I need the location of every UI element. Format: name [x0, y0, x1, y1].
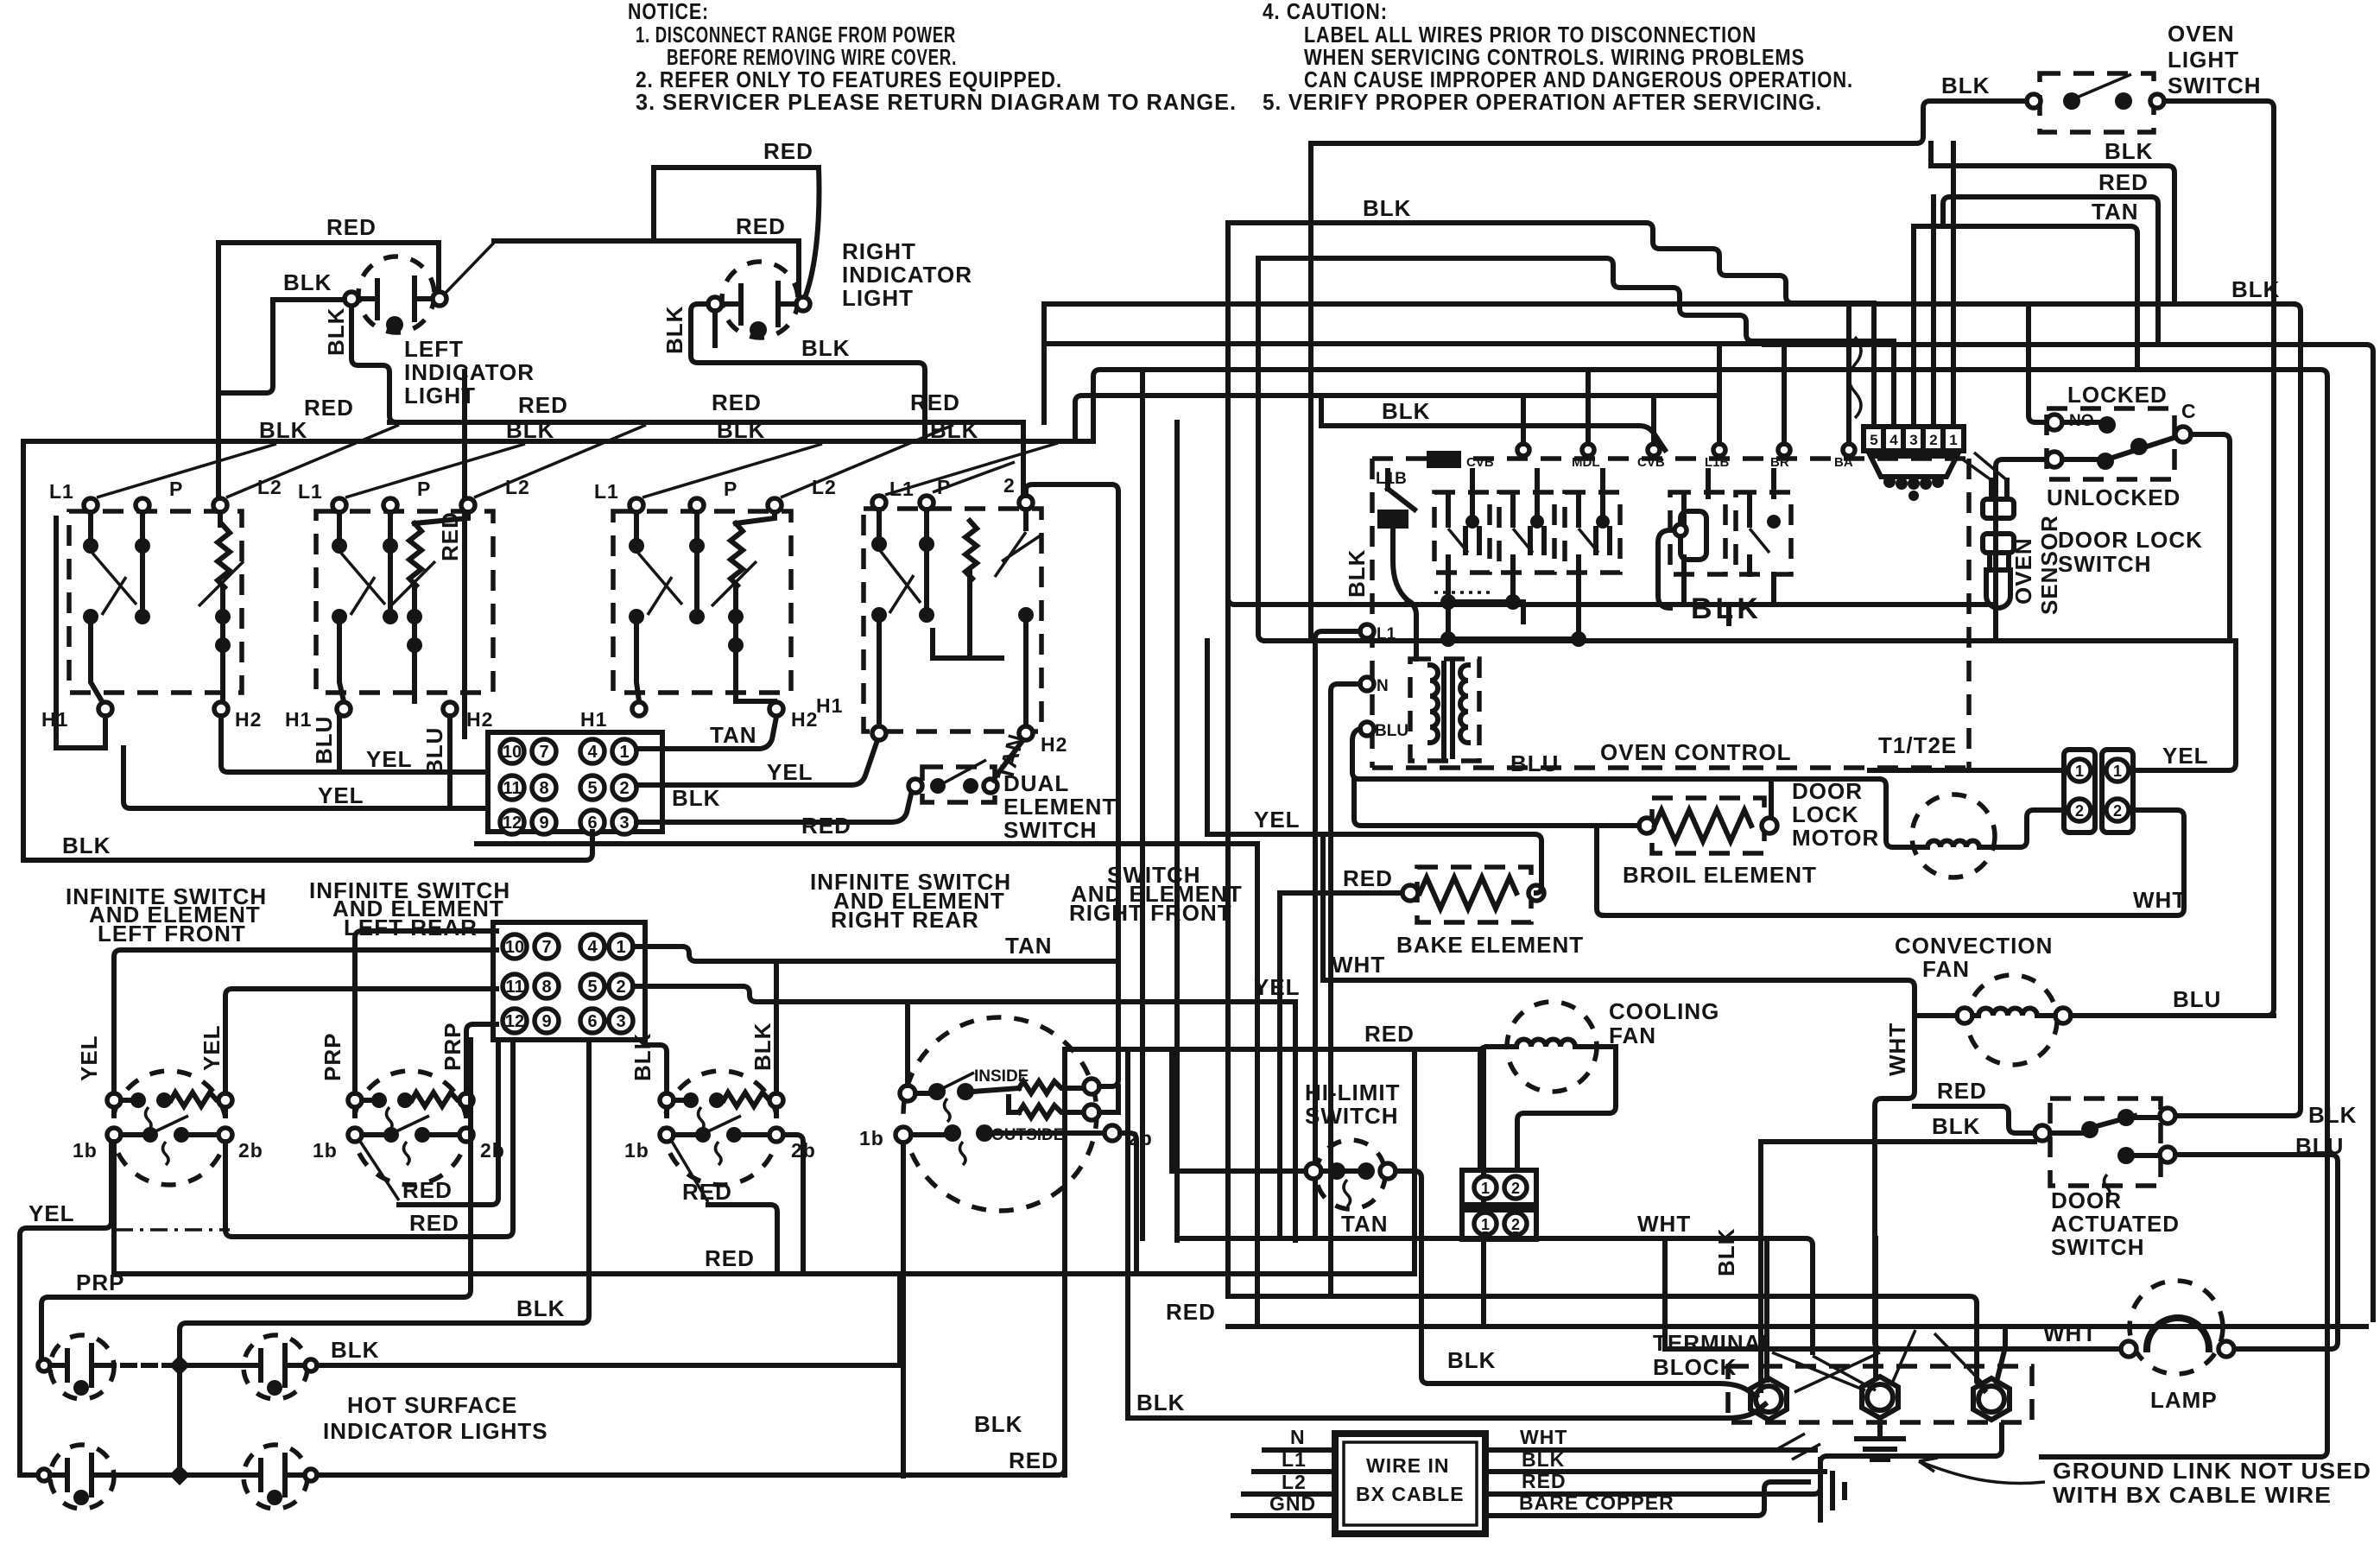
switch and element right front: [859, 1017, 1153, 1211]
wire RED tall loop top center: [654, 168, 819, 295]
svg-text:10: 10: [503, 743, 522, 762]
svg-text:L1B: L1B: [1705, 455, 1730, 470]
svg-text:WIRE IN: WIRE IN: [1366, 1454, 1449, 1477]
svg-text:BLK: BLK: [259, 417, 307, 443]
label LEFT INDICATOR LIGHT: [404, 336, 535, 408]
svg-text:RED: RED: [763, 138, 813, 164]
wire LF to block2 row1: [114, 950, 497, 1093]
connector block 1: [488, 732, 662, 834]
bx stub L1: [1254, 1469, 1335, 1474]
svg-text:RED: RED: [736, 213, 786, 239]
crossover diagonals box2: [345, 425, 646, 497]
wire BLU bus: [1359, 779, 1919, 847]
svg-text:YEL: YEL: [28, 1200, 75, 1226]
svg-text:BLK: BLK: [1363, 195, 1411, 221]
wire left pin2 down: [1331, 684, 1360, 1296]
wire upper cross line y428: [1093, 370, 1768, 441]
svg-text:RED: RED: [1009, 1447, 1059, 1473]
svg-text:YEL: YEL: [767, 759, 813, 785]
svg-text:PRP: PRP: [440, 1023, 465, 1071]
svg-text:RED: RED: [1166, 1299, 1216, 1325]
wire RR 1b drop: [708, 1205, 777, 1274]
svg-text:PRP: PRP: [76, 1270, 124, 1295]
svg-text:2: 2: [1511, 1216, 1520, 1233]
bx wire BLK: [1485, 1469, 1825, 1474]
svg-text:RED: RED: [712, 389, 762, 415]
surface switch box 2 left rear: [285, 476, 530, 731]
svg-text:BLK: BLK: [1713, 1228, 1739, 1276]
wire upper cross line y458: [1075, 396, 1719, 441]
wire BLK from right indicator left terminal: [691, 304, 925, 441]
connector pair boxes: [2064, 750, 2133, 833]
svg-text:BLK: BLK: [1344, 549, 1370, 598]
wire TAN nest line: [1914, 226, 2137, 370]
svg-text:2: 2: [616, 978, 625, 997]
svg-text:CVB: CVB: [1637, 455, 1665, 470]
svg-text:BLK: BLK: [323, 307, 349, 356]
svg-text:2b: 2b: [480, 1139, 505, 1162]
svg-text:RED: RED: [801, 813, 851, 839]
svg-text:5: 5: [1870, 432, 1877, 448]
svg-text:8: 8: [541, 978, 551, 997]
hot surface light 4: [190, 1445, 317, 1509]
svg-text:1: 1: [616, 938, 625, 957]
wire BLK bus y352: [1044, 301, 2294, 307]
wire BLU conv fan: [2071, 1013, 2274, 1018]
wire YEL row to pins 10/11: [221, 716, 488, 772]
svg-text:WHT: WHT: [2133, 887, 2187, 913]
svg-text:TAN: TAN: [2092, 199, 2139, 225]
wire WHT from pair down: [1604, 810, 2184, 915]
svg-text:DOOR: DOOR: [1792, 778, 1863, 804]
svg-text:1b: 1b: [624, 1139, 649, 1162]
5-pin connector plug: [1870, 456, 1957, 501]
svg-text:1b: 1b: [313, 1139, 338, 1162]
wire lug3 riser: [1997, 1327, 2005, 1382]
wire vertical red center: [462, 371, 467, 737]
svg-text:2: 2: [1511, 1180, 1520, 1197]
wire squiggle: [1849, 337, 1861, 418]
svg-text:MOTOR: MOTOR: [1792, 825, 1879, 851]
wire LF to block2 row2: [225, 989, 497, 1093]
oven sensor: [1960, 453, 2014, 608]
wire LR right to block2 row3: [466, 1024, 497, 1093]
svg-text:BROIL ELEMENT: BROIL ELEMENT: [1623, 862, 1817, 888]
svg-text:7: 7: [541, 938, 551, 957]
crossover diagonals box4: [885, 443, 1058, 495]
wire oven light switch right rail: [2164, 101, 2274, 1016]
svg-text:BLK: BLK: [1382, 398, 1430, 424]
svg-text:4: 4: [587, 743, 598, 762]
svg-text:YEL: YEL: [1254, 807, 1301, 833]
lamp: [2121, 1281, 2234, 1374]
wire BLK bottom bus: [23, 832, 592, 860]
svg-text:YEL: YEL: [1254, 974, 1301, 1000]
svg-text:BLK: BLK: [630, 1033, 655, 1081]
wire stubs box2 to bus: [1485, 1234, 1516, 1238]
svg-text:5. VERIFY PROPER OPERATION AFT: 5. VERIFY PROPER OPERATION AFTER SERVICI…: [1263, 89, 1822, 115]
wire right-half bus y700: [1235, 602, 1996, 607]
relay box C: [1565, 471, 1620, 573]
svg-text:DOOR: DOOR: [2051, 1187, 2122, 1213]
svg-text:YEL: YEL: [366, 746, 413, 772]
svg-text:H2: H2: [1041, 733, 1067, 756]
wire RED to door actuated switch: [1915, 1106, 2035, 1133]
svg-text:1: 1: [1481, 1216, 1490, 1233]
svg-text:RIGHT: RIGHT: [842, 238, 916, 264]
wire BLK from left indicator: [221, 300, 345, 393]
svg-text:BLK: BLK: [2105, 138, 2153, 164]
terminal lug 1: [1750, 1378, 1787, 1420]
bx ground symbol: [1820, 1460, 1845, 1520]
crossover diagonals box3: [642, 425, 953, 497]
svg-text:BLK: BLK: [506, 417, 554, 443]
svg-text:DOOR LOCK: DOOR LOCK: [2058, 527, 2203, 553]
crossover diagonals box1: [97, 425, 399, 497]
svg-text:YEL: YEL: [318, 782, 364, 808]
wire RED long bus right: [1228, 1324, 2366, 1329]
svg-text:WITH BX CABLE WIRE: WITH BX CABLE WIRE: [2053, 1482, 2332, 1508]
wire right-half bus y742: [1265, 638, 2236, 643]
svg-text:1b: 1b: [859, 1127, 884, 1149]
wire RR 2b drop: [783, 1135, 803, 1274]
wire from 1A down left: [1408, 600, 1416, 659]
wire BLK nest line: [1931, 143, 2174, 304]
wire YEL from pair: [2133, 641, 2236, 770]
wire PRP bus: [41, 1040, 471, 1365]
wire RED rail drop left: [1062, 1049, 1067, 1475]
svg-text:BLK: BLK: [717, 417, 765, 443]
junction node row2: [169, 1465, 190, 1485]
wire RR left to block2 bottom corner: [645, 1045, 667, 1093]
wire BLK row1: [317, 1274, 900, 1365]
svg-text:4. CAUTION:: 4. CAUTION:: [1263, 0, 1388, 24]
svg-text:SWITCH: SWITCH: [2168, 73, 2262, 98]
svg-text:AUX: AUX: [1430, 453, 1458, 467]
arrow to ground: [1919, 1458, 2045, 1484]
wire BLU drop to broil: [1769, 779, 1774, 826]
svg-text:3: 3: [619, 814, 629, 833]
svg-text:P: P: [417, 478, 431, 500]
bx stub L2: [1244, 1491, 1335, 1497]
svg-text:RED: RED: [1522, 1470, 1567, 1492]
svg-text:L1: L1: [298, 480, 323, 503]
oven control top pins: [1517, 304, 1855, 456]
wire BLK bus y428 extended: [1768, 370, 2327, 1457]
svg-text:5: 5: [587, 978, 597, 997]
svg-text:11: 11: [505, 978, 523, 997]
svg-text:H1: H1: [285, 708, 312, 731]
wire RF 1b drop: [901, 1143, 906, 1476]
svg-text:LEFT: LEFT: [404, 336, 464, 362]
svg-text:8: 8: [539, 779, 548, 798]
svg-text:5: 5: [587, 779, 597, 798]
5-pin connector: [1864, 427, 1964, 451]
svg-text:L1: L1: [1282, 1448, 1307, 1471]
hot surface light 1: [38, 1335, 114, 1399]
notice text block: [628, 0, 1237, 115]
svg-text:1: 1: [1481, 1180, 1490, 1197]
svg-text:HOT SURFACE: HOT SURFACE: [347, 1392, 517, 1418]
svg-text:RED: RED: [304, 395, 354, 421]
svg-text:CVB: CVB: [1466, 455, 1494, 470]
svg-text:1: 1: [2113, 763, 2122, 780]
label RIGHT INDICATOR LIGHT: [842, 238, 972, 311]
svg-text:YEL: YEL: [76, 1035, 102, 1081]
svg-text:LOCK: LOCK: [1792, 801, 1859, 827]
surface switch box 1 left front: [41, 476, 282, 731]
svg-text:ELEMENT: ELEMENT: [1003, 794, 1117, 820]
svg-text:SWITCH: SWITCH: [2058, 551, 2152, 577]
svg-text:1: 1: [619, 743, 629, 762]
svg-text:OVEN: OVEN: [2168, 21, 2235, 47]
svg-text:BLK: BLK: [1691, 592, 1762, 625]
hot surface light 2: [190, 1335, 317, 1399]
wire RED bus y489: [389, 420, 1023, 425]
svg-text:TERMINAL: TERMINAL: [1653, 1330, 1776, 1356]
relay box E: [1736, 471, 1791, 574]
wire cooling fan right leg: [1517, 1047, 1616, 1170]
svg-text:BLU: BLU: [2173, 986, 2221, 1012]
wire RR 1b diagonal: [671, 1140, 708, 1202]
svg-text:6: 6: [587, 1012, 597, 1031]
svg-text:TAN: TAN: [1005, 933, 1053, 959]
wire YEL bus mid: [1207, 834, 1541, 893]
svg-text:H2: H2: [235, 708, 262, 731]
svg-text:BLU: BLU: [2295, 1133, 2344, 1159]
svg-text:WHT: WHT: [1520, 1426, 1567, 1448]
wire RED rail drop right: [1481, 1049, 1486, 1327]
wire mid rail C: [1255, 844, 1260, 1327]
svg-text:LOCKED: LOCKED: [2067, 382, 2168, 408]
1A black box: [1377, 510, 1408, 529]
svg-text:C: C: [2181, 400, 2197, 422]
wire RED to bake: [1280, 890, 1410, 896]
wire BLK rail right to door switch: [2175, 304, 2301, 1116]
svg-text:7: 7: [539, 743, 548, 762]
svg-text:P: P: [724, 478, 737, 500]
relay box D: [1670, 471, 1725, 574]
infinite switch left front: [73, 1024, 263, 1185]
svg-text:ACTUATED: ACTUATED: [2051, 1211, 2180, 1237]
svg-text:LIGHT: LIGHT: [2168, 47, 2239, 73]
hi-limit switch: [1306, 1140, 1396, 1209]
svg-text:SWITCH: SWITCH: [2051, 1234, 2145, 1260]
infinite switch left rear: [313, 1023, 505, 1185]
wire hi-limit right lead down: [1396, 1171, 1428, 1384]
wire hi-limit left lead: [1172, 1168, 1306, 1174]
svg-text:UNLOCKED: UNLOCKED: [2047, 484, 2181, 510]
wire in bx cable box: [1335, 1434, 1485, 1534]
infinite switch right rear: [624, 1023, 816, 1185]
svg-text:SWITCH: SWITCH: [1305, 1103, 1399, 1129]
svg-text:RED: RED: [326, 214, 377, 240]
wire RED bus right mid: [1065, 1047, 1484, 1052]
svg-text:BLK: BLK: [283, 269, 332, 295]
svg-text:BLK: BLK: [1932, 1113, 1980, 1139]
wire upper cross line y398: [1044, 341, 1764, 346]
svg-text:BLK: BLK: [1447, 1347, 1496, 1373]
svg-text:WHT: WHT: [1884, 1023, 1910, 1076]
transformer: [1410, 659, 1479, 761]
wire BLU drop from box2 H1: [337, 716, 342, 772]
svg-text:10: 10: [505, 938, 524, 957]
svg-text:RED: RED: [705, 1245, 755, 1271]
svg-text:BR: BR: [1770, 455, 1789, 470]
svg-text:H1: H1: [816, 694, 843, 717]
svg-text:4: 4: [1889, 432, 1898, 448]
wire BLK bus y511: [23, 439, 1093, 444]
wire dashed link to junction: [102, 1363, 169, 1368]
svg-text:BLU: BLU: [1375, 722, 1408, 740]
svg-text:9: 9: [539, 814, 548, 833]
wire LF 1b down: [111, 1142, 117, 1274]
wire broil left lead: [1354, 779, 1639, 826]
svg-text:MDL: MDL: [1572, 455, 1600, 470]
wire TAN from dual element switch up to box4 H2: [993, 741, 1022, 780]
wire BLK short bus to lug1: [1428, 1384, 1757, 1396]
caution text block: [1263, 0, 1853, 115]
wire RED bus y399 extended: [1764, 345, 2373, 1320]
svg-text:YEL: YEL: [199, 1024, 225, 1071]
dotted link under relay A: [1434, 591, 1490, 594]
wire into pair pin1: [1870, 768, 2064, 773]
wire BLK from pin 3 to dual element switch: [636, 790, 912, 822]
svg-text:BLK: BLK: [672, 785, 720, 811]
svg-text:9: 9: [541, 1012, 551, 1031]
door actuated switch: [2035, 1099, 2175, 1198]
svg-text:L1B: L1B: [1376, 470, 1407, 488]
svg-text:1b: 1b: [73, 1139, 98, 1162]
wire TAN-WHT bus: [1177, 1238, 1813, 1352]
thin link lines near bx: [1776, 1434, 1820, 1460]
wire RED stub 1: [399, 1040, 498, 1205]
svg-text:BLK: BLK: [62, 833, 111, 858]
door lock motor: [1912, 795, 1995, 877]
wire cooling fan left leg: [1480, 1047, 1487, 1170]
svg-text:BLK: BLK: [750, 1023, 775, 1071]
svg-text:2: 2: [1003, 474, 1016, 497]
svg-text:BLU: BLU: [421, 727, 447, 776]
wire RR right up to TAN bus: [774, 961, 779, 1093]
left indicator light: [345, 256, 446, 333]
svg-text:NOTICE:: NOTICE:: [628, 0, 709, 24]
wire RF upper left up to YEL: [905, 1002, 910, 1086]
svg-text:12: 12: [503, 814, 522, 833]
svg-text:T1/T2E: T1/T2E: [1878, 732, 1957, 758]
svg-text:RED: RED: [682, 1179, 732, 1205]
wire staircase 1: [1228, 223, 1874, 303]
svg-text:GROUND LINK NOT USED: GROUND LINK NOT USED: [2053, 1458, 2371, 1484]
svg-text:BLK: BLK: [661, 306, 687, 354]
svg-text:2b: 2b: [1128, 1127, 1153, 1149]
wire BLK long bottom: [1128, 1404, 1765, 1418]
relay box A: [1434, 471, 1490, 573]
bx stub N: [1264, 1447, 1335, 1453]
wire mid rail B: [1225, 441, 1231, 1296]
pin code labels: [1427, 451, 1853, 470]
svg-text:YEL: YEL: [2162, 743, 2209, 769]
wire junction column: [177, 1365, 182, 1475]
hot surface light 3: [38, 1445, 114, 1509]
svg-text:LAMP: LAMP: [2150, 1387, 2218, 1413]
wire left pin3 to BLU: [1352, 729, 1360, 779]
wire lug2 riser: [1873, 1238, 1878, 1378]
svg-text:RIGHT FRONT: RIGHT FRONT: [1069, 900, 1232, 926]
svg-text:2b: 2b: [238, 1139, 263, 1162]
wire BLK bus into control: [1321, 426, 1665, 450]
bx wire RED: [1485, 1425, 2002, 1494]
svg-text:BLK: BLK: [1941, 73, 1990, 98]
wire BLK to door actuated switch: [1761, 1139, 2035, 1144]
svg-text:TAN: TAN: [1341, 1211, 1389, 1237]
thin cross wires above lugs: [1772, 1330, 1986, 1392]
wire bus y1501: [1228, 1296, 1984, 1390]
svg-text:LIGHT: LIGHT: [842, 285, 914, 311]
svg-text:BLOCK: BLOCK: [1653, 1354, 1737, 1380]
wire 5-pin connector risers: [1874, 143, 1953, 427]
connector block 2: [493, 922, 645, 1040]
terminal lug 3: [1973, 1378, 2010, 1420]
wire left margin rail: [21, 441, 26, 860]
wire door lock switch lower left down: [1996, 459, 2047, 641]
svg-text:INDICATOR: INDICATOR: [842, 262, 972, 288]
wire YEL from pin 2 to box4 H1: [636, 743, 877, 785]
svg-text:RED: RED: [518, 392, 568, 418]
svg-text:OVEN CONTROL: OVEN CONTROL: [1600, 739, 1791, 765]
svg-text:H1: H1: [580, 708, 607, 731]
right indicator light: [708, 262, 810, 339]
wire LR to block2 top: [355, 931, 497, 1093]
wire RF 2b drop: [1120, 1133, 1136, 1274]
surface switch box 3 right rear: [580, 476, 837, 731]
svg-text:LEFT REAR: LEFT REAR: [344, 915, 478, 940]
wire WHT bus mid: [1323, 980, 1915, 1349]
wire RED stub 2: [225, 1040, 513, 1237]
svg-text:WHT: WHT: [1637, 1211, 1691, 1237]
fan connector box 1: [1462, 1170, 1536, 1205]
svg-text:BLK: BLK: [801, 335, 850, 361]
oven control left pins: [1360, 624, 1408, 740]
svg-text:12: 12: [505, 1012, 524, 1031]
svg-text:H2: H2: [791, 708, 818, 731]
svg-text:11: 11: [503, 779, 521, 798]
wire WHT to lamp: [1665, 1346, 2121, 1352]
wire RED under dual element switch: [477, 841, 1257, 846]
wire RED row2 long: [317, 1049, 1065, 1475]
oven light switch label: [2168, 21, 2262, 98]
svg-text:INDICATOR LIGHTS: INDICATOR LIGHTS: [323, 1418, 548, 1444]
svg-text:WHT: WHT: [2043, 1320, 2097, 1346]
wire link row2: [102, 1472, 169, 1478]
svg-text:L2: L2: [1282, 1471, 1307, 1493]
wire staircase 2: [1258, 258, 1894, 341]
wire from box4 terminal 2 to rail: [1026, 484, 1118, 961]
junction node row1: [169, 1355, 190, 1376]
svg-text:BLK: BLK: [1136, 1390, 1185, 1415]
svg-text:H2: H2: [466, 708, 493, 731]
svg-text:3: 3: [616, 1012, 625, 1031]
svg-text:BLU: BLU: [1510, 750, 1559, 776]
svg-text:SWITCH: SWITCH: [1003, 817, 1098, 843]
oven control dashed box: [1372, 459, 1969, 768]
svg-text:BAKE ELEMENT: BAKE ELEMENT: [1396, 932, 1584, 958]
wire door lock switch NO up: [2029, 304, 2047, 422]
wire mid rail A2: [1140, 370, 1145, 1238]
svg-text:CONVECTION: CONVECTION: [1895, 933, 2053, 959]
wire BLU drop from box2 H2: [447, 716, 453, 808]
wire YEL drop: [1293, 1002, 1298, 1240]
